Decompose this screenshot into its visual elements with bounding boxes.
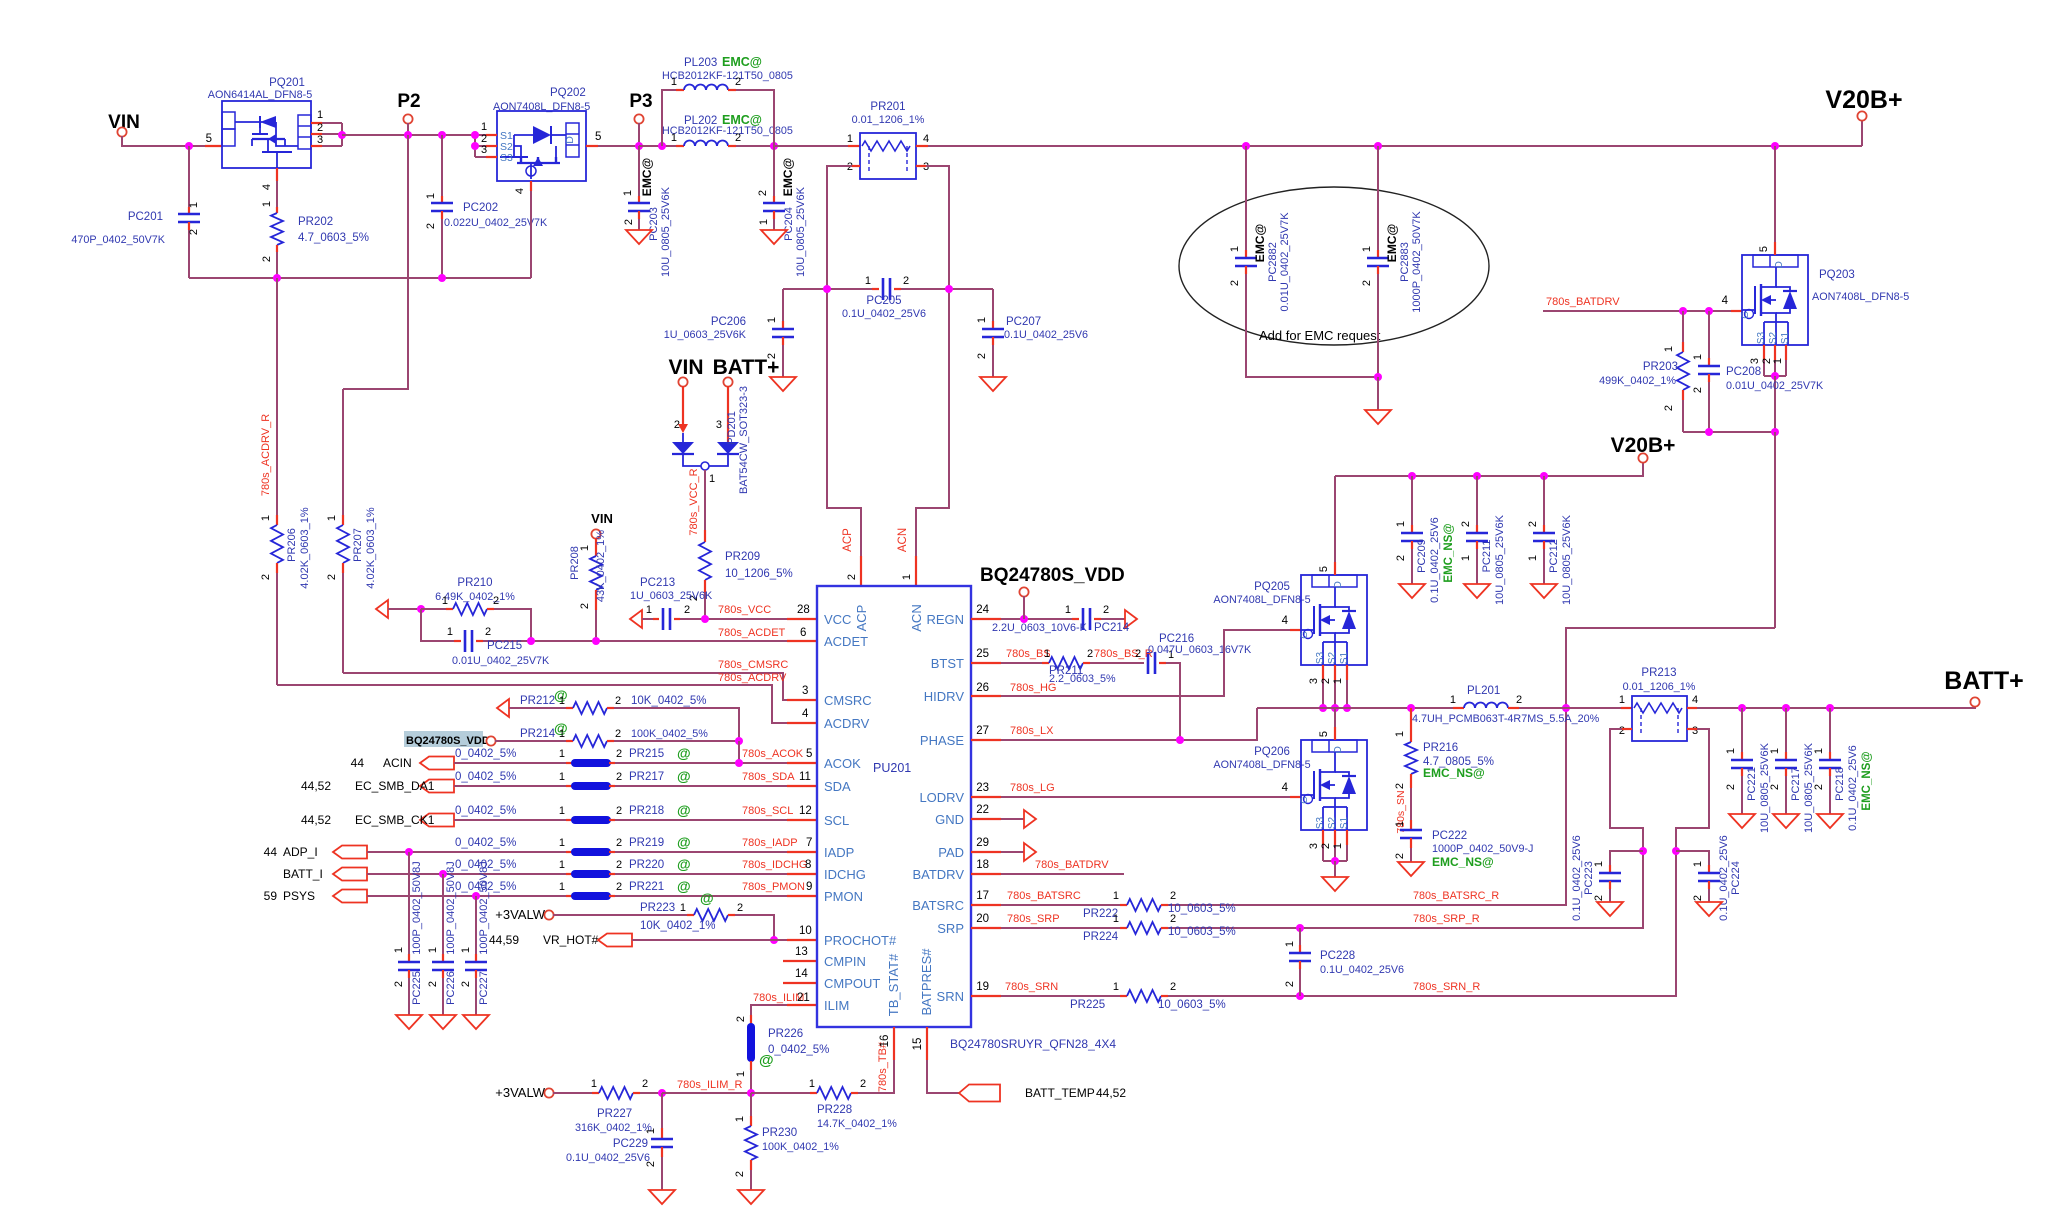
svg-text:CMPIN: CMPIN: [824, 954, 866, 969]
svg-text:5: 5: [206, 133, 212, 145]
svg-text:1: 1: [1065, 604, 1071, 616]
svg-text:1: 1: [1692, 861, 1704, 867]
svg-text:PR214: PR214: [520, 728, 556, 740]
svg-text:100P_0402_50V8J: 100P_0402_50V8J: [411, 861, 423, 955]
svg-text:2: 2: [616, 771, 622, 783]
svg-text:PR212: PR212: [520, 695, 555, 707]
svg-text:P2: P2: [397, 91, 420, 112]
net LX bus: [1257, 707, 1453, 709]
svg-text:44: 44: [351, 756, 365, 770]
svg-text:26: 26: [976, 682, 989, 694]
node P2 junction: [404, 131, 412, 139]
resistor PR210 (6.49K_0402_1%): [421, 608, 446, 610]
svg-text:1: 1: [766, 317, 778, 323]
node IADP/PC225 junction: [405, 848, 413, 856]
svg-text:2: 2: [1320, 678, 1332, 684]
svg-text:PC207: PC207: [1006, 316, 1041, 328]
svg-text:2: 2: [623, 219, 635, 225]
svg-text:2: 2: [1663, 405, 1675, 411]
svg-text:ADP_I: ADP_I: [283, 845, 318, 859]
port V20B+ top right: [1861, 120, 1863, 146]
svg-text:PC215: PC215: [487, 640, 522, 652]
pin 14 stub CMPOUT: [783, 982, 817, 984]
svg-text:1U_0603_25V6K: 1U_0603_25V6K: [630, 590, 713, 602]
svg-text:PC224: PC224: [1730, 861, 1742, 895]
svg-text:2: 2: [1516, 694, 1522, 706]
svg-text:4.7_0603_5%: 4.7_0603_5%: [298, 232, 369, 244]
jumper PR221 row: [333, 890, 367, 903]
svg-text:SRP: SRP: [937, 921, 964, 936]
arrow port for PR210: [376, 600, 388, 618]
svg-text:PR209: PR209: [725, 551, 760, 563]
svg-text:EMC_NS@: EMC_NS@: [1423, 766, 1485, 780]
svg-text:PR215: PR215: [629, 748, 664, 760]
svg-text:44,52: 44,52: [301, 813, 331, 827]
node IDCHG/PC226 junction: [439, 870, 447, 878]
svg-text:G: G: [1740, 311, 1751, 318]
svg-text:1: 1: [1527, 555, 1539, 561]
svg-text:780s_ACDET: 780s_ACDET: [718, 627, 786, 639]
svg-text:PR213: PR213: [1641, 667, 1676, 679]
node PD201 common cathode: [701, 462, 709, 470]
svg-text:43K_0402_1%: 43K_0402_1%: [595, 530, 607, 602]
svg-text:2: 2: [616, 805, 622, 817]
svg-text:2: 2: [1103, 604, 1109, 616]
svg-text:@: @: [677, 834, 691, 850]
svg-text:780s_BATDRV: 780s_BATDRV: [1035, 859, 1109, 871]
svg-text:1: 1: [559, 695, 565, 707]
svg-text:780s_ACOK: 780s_ACOK: [742, 748, 804, 760]
svg-text:PR218: PR218: [629, 805, 664, 817]
svg-text:VR_HOT#: VR_HOT#: [543, 933, 599, 947]
svg-text:PSYS: PSYS: [283, 889, 315, 903]
node PQ203 source/bus junction: [1771, 428, 1779, 436]
svg-text:PR225: PR225: [1070, 999, 1105, 1011]
svg-text:ILIM: ILIM: [824, 998, 849, 1013]
resistor PR212 (10K_0402_5%): [509, 707, 566, 709]
svg-text:PR228: PR228: [817, 1104, 852, 1116]
jumper PR220 row: [333, 868, 367, 881]
svg-text:2: 2: [1460, 521, 1472, 527]
svg-text:2: 2: [1229, 280, 1241, 286]
ground below PC218: [1817, 814, 1843, 828]
ground below PC211: [1464, 584, 1490, 598]
svg-text:PR216: PR216: [1423, 742, 1458, 754]
svg-text:PC217: PC217: [1790, 767, 1802, 801]
wire PQ203 source to sense bus: [1774, 376, 1776, 432]
wire PR213 pin2 to PC223/SRP: [1622, 728, 1632, 730]
svg-text:1: 1: [1361, 246, 1373, 252]
wire V20B+ to PQ205 drain: [1334, 476, 1336, 562]
svg-text:D: D: [564, 136, 576, 144]
svg-text:1: 1: [261, 201, 273, 207]
svg-text:1: 1: [559, 728, 565, 740]
svg-text:2: 2: [674, 419, 680, 431]
node PL202 left junction: [658, 142, 666, 150]
svg-text:1: 1: [559, 859, 565, 871]
svg-text:0.022U_0402_25V7K: 0.022U_0402_25V7K: [444, 217, 548, 229]
svg-text:AON7408L_DFN8-5: AON7408L_DFN8-5: [1213, 594, 1310, 606]
node PR209/VCC junction: [701, 615, 709, 623]
net 780s_HG row (HIDRV to PQ205 gate): [971, 695, 1001, 697]
svg-text:2: 2: [188, 229, 200, 235]
svg-text:1: 1: [645, 1128, 657, 1134]
port BATT_TEMP: [959, 1085, 1000, 1102]
capacitor PC224 (0.1U_0402_25V6): [1676, 851, 1709, 865]
ground below PC229: [649, 1190, 675, 1204]
net BATT+ rail: [1687, 707, 1697, 709]
svg-text:1: 1: [709, 473, 715, 485]
svg-text:0.1U_0402_25V6: 0.1U_0402_25V6: [1429, 517, 1441, 603]
wire PR203/PC208/PQ203 bottom bus: [1683, 431, 1775, 433]
svg-text:2: 2: [757, 190, 769, 196]
svg-text:ACN: ACN: [909, 604, 924, 631]
svg-text:5: 5: [595, 131, 601, 143]
svg-text:3: 3: [716, 419, 722, 431]
svg-text:0_0402_5%: 0_0402_5%: [455, 805, 516, 817]
svg-text:44,52: 44,52: [1096, 1086, 1126, 1100]
resistor PR227 (316K_0402_1%): [553, 1092, 592, 1094]
svg-text:AON7408L_DFN8-5: AON7408L_DFN8-5: [1812, 291, 1909, 303]
svg-text:3: 3: [1308, 678, 1320, 684]
svg-text:3: 3: [317, 134, 323, 146]
svg-text:780s_VCC: 780s_VCC: [718, 604, 771, 616]
svg-text:ACN: ACN: [897, 528, 909, 552]
svg-text:2: 2: [642, 1078, 648, 1090]
svg-text:PC2882: PC2882: [1267, 242, 1279, 282]
node PC208 gate junction: [1705, 307, 1713, 315]
svg-text:GND: GND: [935, 812, 964, 827]
node PMON/PC227 junction: [472, 892, 480, 900]
node PR202/bus junction: [273, 274, 281, 282]
svg-text:780s_SRP: 780s_SRP: [1007, 913, 1060, 925]
wire to ground: [1334, 861, 1336, 877]
svg-text:PC205: PC205: [866, 295, 901, 307]
node REGN/VDD junction: [1020, 615, 1028, 623]
node PROCHOT junction: [770, 936, 778, 944]
svg-text:CMSRC: CMSRC: [824, 693, 872, 708]
svg-text:1: 1: [901, 574, 913, 580]
svg-text:780s_IDCHG: 780s_IDCHG: [742, 859, 807, 871]
svg-text:PR223: PR223: [640, 902, 675, 914]
svg-text:1: 1: [317, 109, 323, 121]
svg-text:0_0402_5%: 0_0402_5%: [455, 837, 516, 849]
svg-text:10U_0805_25V6K: 10U_0805_25V6K: [660, 186, 672, 277]
svg-text:1000P_0402_50V7K: 1000P_0402_50V7K: [1411, 211, 1423, 313]
svg-text:2.2_0603_5%: 2.2_0603_5%: [1049, 673, 1116, 685]
svg-text:2: 2: [1394, 783, 1406, 789]
wire P3 rail to PR201: [774, 145, 848, 147]
wire P3 drop: [638, 123, 640, 146]
svg-text:2: 2: [734, 1171, 746, 1177]
svg-text:780s_LX: 780s_LX: [1010, 725, 1054, 737]
svg-text:PC203: PC203: [648, 207, 660, 241]
wire V20B+ rail to PQ203 drain: [1774, 146, 1776, 242]
svg-text:2: 2: [860, 1078, 866, 1090]
svg-text:D: D: [1773, 261, 1785, 269]
svg-text:EMC@: EMC@: [640, 158, 654, 196]
svg-text:G: G: [1299, 631, 1310, 638]
node PQ206 source join: [1331, 857, 1339, 865]
svg-text:S3: S3: [1756, 331, 1767, 344]
svg-text:1: 1: [1284, 941, 1296, 947]
net 780s_SRP + resistor PR224: [971, 927, 1001, 929]
svg-text:4: 4: [1722, 295, 1729, 307]
svg-text:2: 2: [1725, 784, 1737, 790]
ground below PC212: [1531, 584, 1557, 598]
op-amp U1 IC PU201 BQ24780S: [817, 586, 971, 1027]
svg-text:1: 1: [1044, 648, 1050, 660]
svg-text:780s_TB#: 780s_TB#: [877, 1041, 889, 1092]
svg-text:2: 2: [579, 603, 591, 609]
svg-text:BATT_TEMP: BATT_TEMP: [1025, 1086, 1095, 1100]
svg-text:4.02K_0603_1%: 4.02K_0603_1%: [299, 507, 311, 589]
svg-text:18: 18: [976, 859, 989, 871]
svg-text:AON7408L_DFN8-5: AON7408L_DFN8-5: [1213, 759, 1310, 771]
svg-text:S2: S2: [1327, 816, 1338, 829]
svg-text:10U_0805_25V6K: 10U_0805_25V6K: [1561, 514, 1573, 605]
svg-text:1: 1: [622, 190, 634, 196]
wire VR_HOT# to PROCHOT#: [632, 939, 787, 941]
svg-text:PC218: PC218: [1834, 767, 1846, 801]
svg-text:ACDET: ACDET: [824, 634, 868, 649]
wire LX to PQ206 drain: [1334, 708, 1336, 727]
svg-text:780s_BS_R: 780s_BS_R: [1094, 648, 1153, 660]
svg-text:0.01U_0402_25V7K: 0.01U_0402_25V7K: [452, 655, 550, 667]
svg-text:S1: S1: [1339, 816, 1350, 829]
capacitor PC201: [188, 146, 190, 207]
svg-text:@: @: [677, 802, 691, 818]
svg-text:100K_0402_1%: 100K_0402_1%: [762, 1141, 839, 1153]
svg-text:2: 2: [1527, 521, 1539, 527]
ground below PC203: [626, 230, 652, 244]
svg-text:P3: P3: [629, 91, 652, 112]
svg-text:2: 2: [615, 728, 621, 740]
svg-text:0.1U_0402_25V6: 0.1U_0402_25V6: [1847, 745, 1859, 831]
svg-text:780s_ACDRV_R: 780s_ACDRV_R: [260, 414, 272, 496]
wire to PR228: [751, 1092, 810, 1094]
node VIN/PC201 junction: [185, 142, 193, 150]
svg-text:PC212: PC212: [1548, 539, 1560, 573]
wire BATT+ to PD201 anode: [727, 386, 729, 442]
diode PD201 (BAT54CW_SOT323-3): [682, 433, 684, 442]
port V20B+ mid: [1638, 453, 1647, 462]
ground below PC223: [1597, 902, 1623, 916]
svg-text:1: 1: [1692, 354, 1704, 360]
svg-text:PL203: PL203: [684, 57, 717, 69]
arrow port for PR212: [497, 699, 509, 717]
svg-text:PROCHOT#: PROCHOT#: [824, 933, 897, 948]
port BATT+: [1971, 706, 1975, 708]
svg-text:PC225: PC225: [411, 971, 423, 1005]
svg-text:1: 1: [735, 1071, 747, 1077]
svg-text:PAD: PAD: [938, 845, 964, 860]
svg-text:14.7K_0402_1%: 14.7K_0402_1%: [817, 1118, 897, 1130]
svg-text:1: 1: [1113, 890, 1119, 902]
svg-text:BATT+: BATT+: [1944, 667, 2023, 695]
node PR216 junction: [1407, 704, 1415, 712]
svg-text:2: 2: [735, 76, 741, 88]
svg-text:@: @: [677, 768, 691, 784]
svg-text:2: 2: [1619, 725, 1625, 737]
svg-text:5: 5: [1318, 566, 1330, 572]
svg-text:1: 1: [1450, 694, 1456, 706]
svg-text:780s_PMON: 780s_PMON: [742, 881, 805, 893]
ground below PC227: [463, 1015, 489, 1029]
net 780s_SRN + resistor PR225: [971, 995, 1001, 997]
svg-text:22: 22: [976, 804, 989, 816]
svg-text:10_0603_5%: 10_0603_5%: [1168, 903, 1236, 915]
svg-text:100K_0402_5%: 100K_0402_5%: [631, 728, 708, 740]
jumper PR215 row: [420, 757, 454, 770]
node PC202/bus junction: [438, 274, 446, 282]
svg-text:2: 2: [616, 748, 622, 760]
svg-text:1: 1: [447, 626, 453, 638]
svg-text:1: 1: [1113, 981, 1119, 993]
pins 1,2,3 of PQ202: [486, 134, 497, 136]
net 780s_BATSRC + resistor PR222: [971, 904, 1001, 906]
net 780s_ILIM_R row: [662, 1092, 751, 1094]
svg-text:S1: S1: [1339, 651, 1350, 664]
svg-text:0.01U_0402_25V7K: 0.01U_0402_25V7K: [1726, 380, 1824, 392]
net 780s_BS + resistor PR211 + capacitor PC216: [971, 662, 1001, 664]
svg-text:BATSRC: BATSRC: [912, 898, 964, 913]
svg-text:28: 28: [797, 604, 810, 616]
net P2 rail: [342, 134, 475, 136]
capacitor PC204: [773, 146, 775, 196]
svg-text:PR210: PR210: [457, 577, 492, 589]
svg-text:EMC@: EMC@: [1385, 224, 1399, 262]
svg-text:1: 1: [671, 132, 677, 144]
svg-text:470P_0402_50V7K: 470P_0402_50V7K: [71, 234, 165, 246]
svg-text:10K_0402_5%: 10K_0402_5%: [631, 695, 706, 707]
wire VIN to PQ201 pin 5: [122, 136, 205, 146]
svg-text:8: 8: [805, 859, 811, 871]
svg-text:@: @: [700, 890, 714, 906]
resistor PR228 (14.7K_0402_1%): [817, 1087, 851, 1099]
svg-text:13: 13: [795, 946, 808, 958]
svg-text:1: 1: [427, 947, 439, 953]
svg-text:D: D: [1332, 746, 1344, 754]
svg-text:780s_IADP: 780s_IADP: [742, 837, 798, 849]
ground below PC225: [396, 1015, 422, 1029]
svg-text:2: 2: [1394, 853, 1406, 859]
svg-text:2: 2: [1395, 555, 1407, 561]
svg-text:PR226: PR226: [768, 1028, 803, 1040]
pin 13 stub CMPIN: [783, 960, 817, 962]
svg-text:1: 1: [559, 881, 565, 893]
svg-text:2: 2: [460, 981, 472, 987]
svg-text:2: 2: [427, 981, 439, 987]
svg-text:1: 1: [1394, 731, 1406, 737]
net 780s_BATDRV row: [971, 873, 1001, 875]
svg-text:S2: S2: [1327, 651, 1338, 664]
svg-text:0_0402_5%: 0_0402_5%: [768, 1044, 829, 1056]
svg-text:AON6414AL_DFN8-5: AON6414AL_DFN8-5: [208, 89, 312, 101]
svg-text:10: 10: [799, 925, 812, 937]
svg-text:780s_CMSRC: 780s_CMSRC: [718, 659, 788, 671]
svg-text:1: 1: [442, 595, 448, 607]
node PC229 junction: [658, 1089, 666, 1097]
svg-text:10K_0402_1%: 10K_0402_1%: [640, 920, 715, 932]
capacitor PC223 (0.1U_0402_25V6): [1610, 851, 1643, 865]
svg-text:2: 2: [846, 574, 858, 580]
svg-text:2: 2: [1170, 913, 1176, 925]
svg-text:2: 2: [1170, 981, 1176, 993]
svg-text:6: 6: [800, 627, 806, 639]
svg-text:PR227: PR227: [597, 1108, 632, 1120]
pin 6 stub ACDET: [787, 640, 817, 642]
resistor PR202: [271, 213, 283, 245]
node PQ202 bracket junctions: [471, 131, 479, 139]
node ACN crosses PC205 line: [945, 285, 953, 293]
svg-text:44,59: 44,59: [489, 933, 519, 947]
svg-text:3: 3: [1692, 725, 1698, 737]
wire PR201 pin2 to ACP: [850, 165, 860, 167]
svg-text:1000P_0402_50V9-J: 1000P_0402_50V9-J: [1432, 843, 1533, 855]
svg-text:ACIN: ACIN: [383, 756, 412, 770]
svg-text:PQ202: PQ202: [550, 87, 586, 99]
svg-text:1: 1: [559, 837, 565, 849]
svg-text:PR219: PR219: [629, 837, 664, 849]
svg-text:EMC@: EMC@: [722, 55, 762, 69]
wire PQ201 output bracket: [341, 123, 343, 146]
ground below PC221: [1729, 814, 1755, 828]
capacitor PC218: [1826, 704, 1834, 712]
capacitor PC207: [992, 289, 994, 321]
svg-text:2: 2: [425, 223, 437, 229]
svg-text:10_0603_5%: 10_0603_5%: [1158, 999, 1226, 1011]
svg-text:CMPOUT: CMPOUT: [824, 976, 880, 991]
svg-text:29: 29: [976, 837, 989, 849]
svg-text:2: 2: [317, 122, 323, 134]
svg-text:2: 2: [1361, 280, 1373, 286]
pin 28 stub VCC: [787, 618, 817, 620]
node BATSRC_R/BATT rail junction: [1562, 704, 1570, 712]
svg-text:PC2883: PC2883: [1399, 242, 1411, 282]
svg-text:BAT54CW_SOT323-3: BAT54CW_SOT323-3: [738, 386, 750, 494]
svg-text:5: 5: [806, 748, 812, 760]
svg-text:2: 2: [1320, 843, 1332, 849]
svg-text:7: 7: [806, 837, 812, 849]
svg-text:17: 17: [976, 890, 989, 902]
svg-text:PU201: PU201: [873, 761, 911, 775]
svg-text:2: 2: [684, 604, 690, 616]
svg-text:780s_SRN_R: 780s_SRN_R: [1413, 981, 1480, 993]
resistor PR206 (4.02K_0603_1%): [271, 525, 283, 563]
svg-text:PR217: PR217: [629, 771, 664, 783]
resistor PR214 (100K_0402_5%): [495, 740, 566, 742]
svg-text:D: D: [1332, 581, 1344, 589]
svg-text:EMC_NS@: EMC_NS@: [1861, 751, 1873, 810]
svg-text:21: 21: [797, 992, 810, 1004]
node ACP crosses PC205 line: [823, 285, 831, 293]
svg-text:15: 15: [912, 1038, 924, 1051]
svg-text:@: @: [759, 1052, 774, 1069]
svg-text:TB_STAT#: TB_STAT#: [886, 953, 901, 1016]
svg-text:0_0402_5%: 0_0402_5%: [455, 771, 516, 783]
svg-text:PHASE: PHASE: [920, 733, 964, 748]
svg-text:27: 27: [976, 725, 989, 737]
net 780s_ACDRV_R vertical with resistor PR206: [276, 278, 278, 515]
wire PR213 pin3 to PC224/SRN: [1687, 728, 1697, 730]
svg-text:PR220: PR220: [629, 859, 664, 871]
svg-text:ACOK: ACOK: [824, 756, 861, 771]
wire cathode to PR209, net 780s_VCC_R: [704, 470, 706, 530]
svg-text:1: 1: [1395, 521, 1407, 527]
svg-text:V20B+: V20B+: [1611, 434, 1676, 457]
svg-text:0.1U_0402_25V6: 0.1U_0402_25V6: [1004, 329, 1088, 341]
